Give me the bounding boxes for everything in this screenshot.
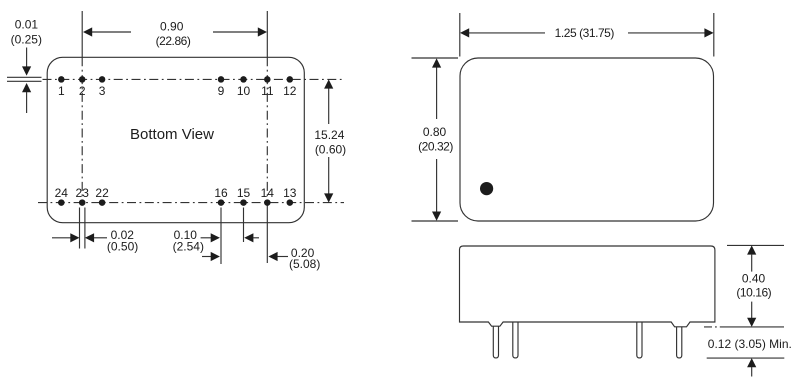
- svg-text:3: 3: [99, 84, 106, 98]
- top view package outline: [460, 58, 714, 221]
- pin 14: [261, 186, 275, 206]
- pin 23: [76, 186, 90, 206]
- svg-text:12: 12: [283, 84, 297, 98]
- svg-text:(20.32): (20.32): [418, 140, 453, 154]
- svg-text:(0.50): (0.50): [107, 239, 138, 253]
- dimension 0.20 (5.08): [202, 246, 320, 271]
- svg-text:23: 23: [76, 186, 90, 200]
- pin 2: [79, 76, 86, 98]
- dimension 0.02 (0.50) pin width: [52, 208, 138, 254]
- pin 11: [261, 76, 274, 98]
- pin 1: [58, 76, 65, 98]
- centerline bottom pin row: [38, 202, 344, 204]
- svg-text:0.80: 0.80: [423, 125, 447, 139]
- centerline pin 2 / pin 23 vertical: [81, 11, 83, 203]
- dimension 0.40 (10.16): [727, 245, 784, 327]
- svg-text:(0.25): (0.25): [11, 32, 42, 46]
- svg-text:13: 13: [283, 186, 297, 200]
- svg-text:15.24: 15.24: [314, 128, 344, 142]
- svg-text:(10.16): (10.16): [736, 285, 771, 299]
- svg-text:14: 14: [261, 186, 275, 200]
- dimension 15.24 (0.60): [314, 79, 346, 202]
- svg-text:11: 11: [261, 84, 274, 98]
- pin 13: [283, 186, 297, 206]
- svg-text:Bottom View: Bottom View: [130, 126, 214, 143]
- dimension 1.25 (31.75): [460, 13, 714, 57]
- side view pin 1: [493, 326, 498, 358]
- svg-text:22: 22: [95, 186, 109, 200]
- svg-text:1: 1: [58, 84, 65, 98]
- dimension 0.90 (22.86): [83, 19, 267, 48]
- svg-text:2: 2: [79, 84, 86, 98]
- pin 1 index dot: [480, 182, 493, 195]
- centerline pin 11 / pin 14 vertical: [266, 11, 268, 263]
- pin 12: [283, 76, 297, 98]
- pin 9: [218, 76, 225, 98]
- svg-text:0.90: 0.90: [160, 19, 184, 33]
- label Bottom View: [130, 126, 214, 143]
- svg-text:(2.54): (2.54): [173, 239, 204, 253]
- dimension 0.80 (20.32): [412, 58, 459, 221]
- svg-text:15: 15: [237, 186, 251, 200]
- dimension 0.01 (0.25): [7, 18, 42, 113]
- svg-text:1.25 (31.75): 1.25 (31.75): [555, 26, 615, 40]
- side view body: [460, 246, 715, 327]
- svg-text:9: 9: [218, 84, 225, 98]
- pin 22: [95, 186, 109, 206]
- svg-text:10: 10: [237, 84, 251, 98]
- pin 10: [237, 76, 251, 98]
- dimension 0.12 (3.05) Min.: [707, 337, 792, 376]
- svg-text:0.01: 0.01: [15, 18, 39, 32]
- pin 3: [99, 76, 106, 98]
- svg-text:0.40: 0.40: [742, 272, 766, 286]
- svg-text:16: 16: [214, 186, 228, 200]
- svg-text:(5.08): (5.08): [289, 257, 320, 271]
- bottom view package outline: [47, 57, 304, 222]
- svg-text:(22.86): (22.86): [156, 34, 191, 48]
- svg-text:0.12 (3.05) Min.: 0.12 (3.05) Min.: [708, 337, 792, 351]
- side view pin 3: [637, 322, 642, 358]
- svg-text:(0.60): (0.60): [315, 142, 346, 156]
- svg-text:24: 24: [55, 186, 69, 200]
- pin 24: [55, 186, 69, 206]
- pin 15: [237, 186, 251, 206]
- side view pin 2: [513, 322, 518, 358]
- seating plane line: [704, 326, 784, 328]
- side view pin 4: [677, 327, 682, 358]
- centerline top pin row: [43, 78, 345, 80]
- dimension 0.10 (2.54) pin pitch: [173, 208, 259, 265]
- pin 16: [214, 186, 228, 206]
